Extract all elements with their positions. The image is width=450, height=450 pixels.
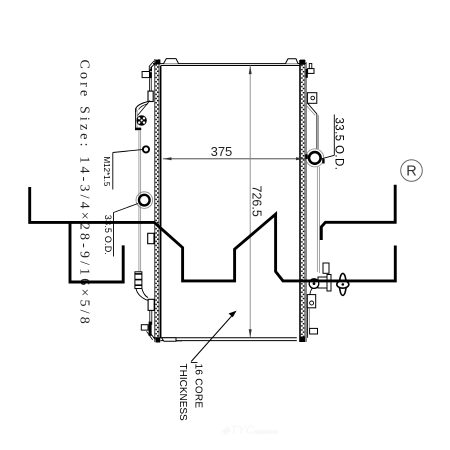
svg-text:M12*1.5: M12*1.5	[102, 157, 111, 187]
svg-text:Core Size: 14-3/4×28-9/16×5/8: Core Size: 14-3/4×28-9/16×5/8	[77, 60, 92, 327]
drain bracket	[307, 295, 315, 308]
dimension 375	[163, 144, 305, 160]
bottom left foot	[162, 338, 177, 342]
lower port ring	[139, 195, 150, 206]
thick cut line main	[30, 187, 396, 281]
svg-text:◆TYC▬▬: ◆TYC▬▬	[221, 423, 278, 437]
right bracket	[307, 93, 316, 104]
clamp band	[135, 128, 141, 131]
sensor flange	[136, 115, 146, 125]
ribbed tube	[135, 272, 142, 289]
wing nut	[337, 273, 349, 295]
dimension 726.5	[249, 66, 264, 338]
left tank filler neck	[149, 61, 156, 72]
svg-text:THICKNESS: THICKNESS	[177, 364, 188, 422]
svg-text:33.5 O.D.: 33.5 O.D.	[103, 215, 113, 255]
drain valve body	[318, 277, 327, 288]
right lower tab	[310, 328, 318, 334]
tube elbow to lower connector	[136, 289, 148, 301]
svg-text:726.5: 726.5	[249, 186, 263, 217]
label 16 CORE THICKNESS	[177, 311, 237, 421]
right side plate strip	[300, 60, 306, 342]
svg-text:16 CORE: 16 CORE	[193, 364, 204, 409]
label 33.5 O.D. left	[103, 204, 138, 257]
left side plate strip	[155, 59, 161, 343]
drain fitting	[323, 263, 329, 273]
top edge left bump	[164, 59, 179, 64]
right tank top pin	[309, 64, 312, 69]
drain arm	[310, 288, 313, 295]
right lower tube	[307, 308, 309, 338]
radiator core bottom edge	[153, 338, 297, 341]
label 33.5 O.D. right	[322, 115, 345, 171]
lower port flange arc	[136, 192, 153, 209]
mid connector block	[148, 233, 154, 243]
top edge right bump	[285, 59, 298, 64]
hose line	[138, 101, 151, 116]
petcock circle	[309, 279, 319, 289]
upper connector block	[148, 91, 153, 101]
M12 port	[143, 146, 149, 152]
svg-text:R: R	[406, 164, 416, 180]
watermark	[221, 423, 278, 437]
right port ring	[309, 152, 321, 164]
core size label	[77, 60, 92, 327]
radiator core top edge	[153, 64, 306, 66]
tank top shoulder	[136, 102, 148, 113]
bleed tube	[149, 78, 151, 91]
right tank wall upper	[308, 103, 317, 114]
tank main wall	[138, 130, 140, 272]
svg-text:375: 375	[211, 144, 233, 159]
thick cut line right upper	[321, 185, 395, 240]
registered trademark symbol	[401, 160, 423, 182]
right tank wall lower	[316, 167, 318, 272]
right tank top tab	[308, 69, 314, 74]
right port flange	[306, 149, 324, 167]
tank upper wall	[135, 108, 137, 128]
svg-text:33.5 O.D.: 33.5 O.D.	[333, 118, 345, 171]
lower thin tube	[149, 310, 151, 324]
tank bottom slant	[149, 331, 155, 339]
lower tab	[141, 325, 148, 330]
label M12*1.5	[102, 150, 142, 190]
thick cut line left U	[70, 223, 123, 282]
overflow nipple	[142, 72, 149, 78]
lower connector block	[148, 299, 154, 310]
